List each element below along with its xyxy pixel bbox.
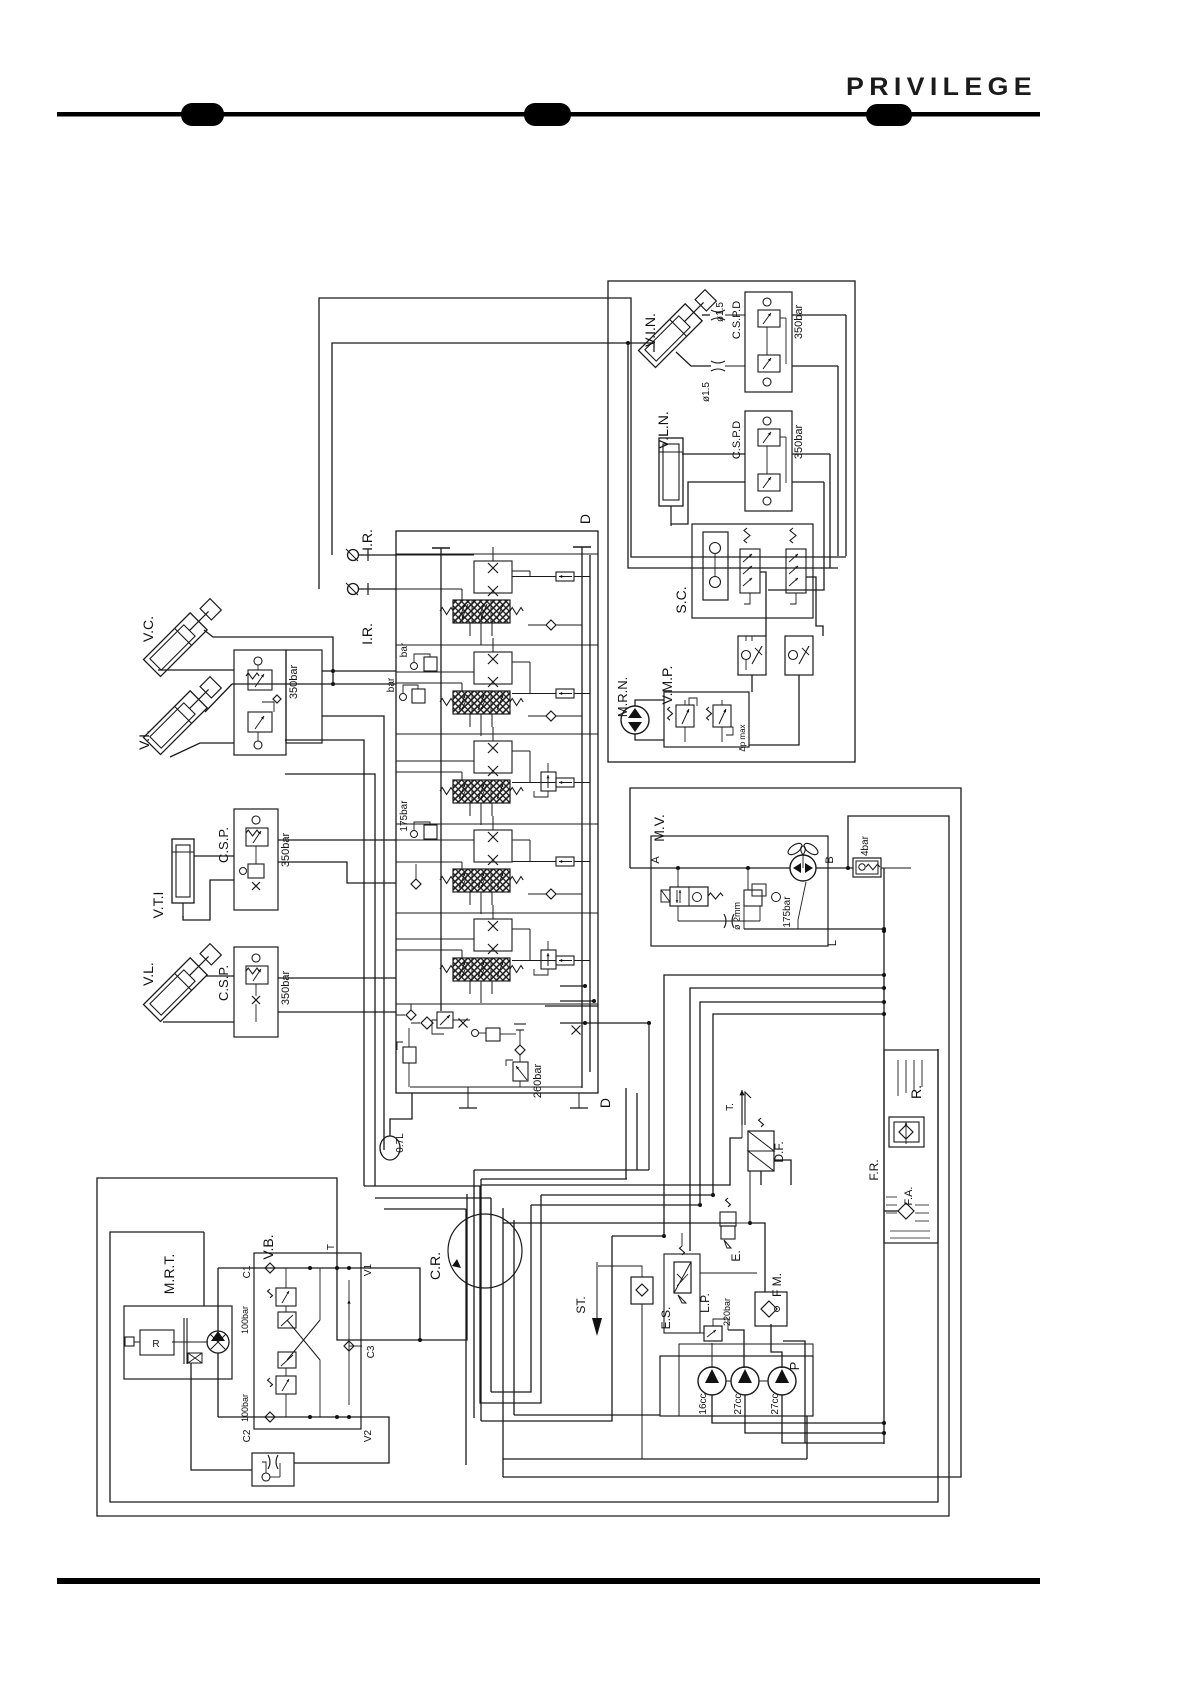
svg-text:ø1.5: ø1.5 — [715, 302, 726, 322]
valve section 5: 6/3 directional control valve — [453, 958, 510, 981]
svg-text:V.T.I: V.T.I — [150, 892, 166, 919]
tank stub right below manifold — [570, 1093, 588, 1108]
fan motor — [786, 841, 820, 881]
pump outlet wires to bus — [712, 1395, 886, 1443]
hand pump M.R.T. — [207, 1331, 229, 1353]
V.B. relief upper — [268, 1268, 297, 1328]
4bar check valve block — [853, 835, 881, 877]
valve section 3: load check valve to return rail — [512, 751, 590, 787]
svg-text:V.L.: V.L. — [140, 962, 156, 986]
valve section 3: right side relief valve — [534, 763, 556, 797]
V.M.P. relief valve right — [707, 700, 734, 742]
pump 16cc — [698, 1367, 726, 1415]
orifice 1.5mm upper — [711, 302, 745, 322]
wires S.C. to flow regulators — [760, 572, 823, 636]
wire V2 down to pilot check box — [294, 1417, 389, 1463]
M.V. solenoid bypass valve — [661, 868, 723, 906]
V.B. top port line C1-V1 — [218, 1263, 362, 1273]
wires V.L. to C.S.P. and onward — [163, 976, 396, 1022]
flow meter F.M. — [755, 1273, 787, 1326]
svg-text:V2: V2 — [363, 1429, 374, 1442]
plugged port X left — [459, 1019, 468, 1028]
supply rail with tank bar top-left — [432, 548, 450, 1011]
svg-text:V.M.P.: V.M.P. — [659, 666, 675, 705]
check valve box near ST — [598, 1266, 653, 1459]
svg-text:V1: V1 — [363, 1263, 374, 1276]
orifice 1.5mm lower — [701, 361, 745, 402]
S.C. pilot valve right — [786, 528, 806, 604]
valve section 1: load check valve to return rail — [512, 571, 590, 581]
motor drain to pilot check box — [191, 1363, 252, 1470]
svg-text:Δp max: Δp max — [738, 724, 747, 751]
sequence block S.C. — [673, 524, 813, 618]
svg-text:C3: C3 — [366, 1345, 377, 1358]
svg-text:V.I.N.: V.I.N. — [642, 313, 658, 347]
svg-text:bar: bar — [399, 642, 410, 657]
valve section 2: spring right — [510, 699, 523, 706]
svg-text:ø 2‌mm: ø 2‌mm — [732, 902, 742, 930]
V.B. check arrow line C3 — [344, 1280, 362, 1405]
valve section 4: spring left — [440, 877, 453, 884]
giant enclosure frame inner — [110, 1049, 938, 1502]
svg-text:M.V.: M.V. — [651, 814, 667, 842]
V.B. bottom port line C2-V2 — [218, 1412, 362, 1422]
valve section 2: pilot lines from rail — [396, 672, 474, 691]
wires V.I.N. to orifices — [676, 315, 711, 366]
reservoir fluid level lines upper — [898, 1060, 922, 1096]
pump shafts — [726, 1380, 768, 1382]
valve section 1: spring right — [510, 608, 523, 615]
wires D.F. — [761, 1160, 791, 1185]
main relief valve 260bar — [506, 1060, 544, 1098]
svg-text:R: R — [152, 1339, 159, 1350]
giant enclosure frame outer with jog through V.B. T port — [97, 816, 949, 1516]
pilot valve small — [472, 1028, 517, 1041]
svg-text:27cc: 27cc — [733, 1393, 744, 1414]
svg-text:ø1.5: ø1.5 — [701, 382, 712, 402]
V.B. crossing pilot lines — [287, 1268, 320, 1417]
svg-text:L: L — [827, 940, 839, 946]
wire from I.R.2 up-over to S.C. area — [319, 298, 846, 589]
pump pressure risers — [664, 1324, 782, 1368]
return rail with tank bar top-right — [573, 547, 591, 1088]
svg-text:A: A — [650, 856, 662, 864]
svg-text:350bar: 350bar — [280, 971, 292, 1006]
low pressure switch L.P. 220bar — [698, 1293, 732, 1341]
wires V.L.N. to C.S.P.D block — [671, 454, 745, 524]
motor shaft and coupling — [172, 1318, 208, 1364]
V.B. port labels — [240, 1244, 377, 1442]
valve section 5: bridge block with orifice X marks — [474, 905, 512, 954]
svg-text:C.S.P.: C.S.P. — [216, 965, 231, 1001]
cylinder V.I.N. — [639, 287, 720, 368]
svg-text:C.R.: C.R. — [427, 1252, 443, 1280]
cylinder V.I. — [136, 674, 224, 755]
svg-text:S.C.: S.C. — [673, 586, 689, 613]
svg-text:C1: C1 — [242, 1265, 253, 1278]
pump group P enclosure — [660, 1344, 813, 1416]
rotation loop C.R. — [427, 1214, 522, 1288]
A-B line through fan motor — [630, 866, 853, 870]
bleed valve I.R. 1 — [346, 529, 396, 561]
svg-text:175bar: 175bar — [399, 800, 410, 832]
svg-text:V.C.: V.C. — [140, 616, 156, 642]
valve section 2: bridge block with orifice X marks — [474, 638, 512, 687]
wires flow regulators down to V.M.P. — [749, 675, 799, 745]
flag arrow T. — [725, 1090, 751, 1138]
valve section 5: spring right — [510, 966, 523, 973]
reservoir enclosure R. — [884, 1050, 938, 1243]
valve section 5: work-port stubs — [470, 981, 492, 1003]
steering takeoff ST. arrow — [574, 1262, 602, 1336]
wires M.R.N. to V.M.P. — [635, 700, 664, 740]
valve section 1: work-port stubs — [470, 623, 492, 645]
svg-text:F.R.: F.R. — [867, 1159, 881, 1180]
svg-text:V.L.N.: V.L.N. — [655, 411, 671, 449]
wire V1 to junction — [362, 1268, 422, 1342]
accumulator 0.7L — [380, 1093, 412, 1160]
S.C. pilot valve left — [740, 528, 760, 604]
unloader valve — [432, 1012, 470, 1034]
svg-text:PRIVILEGE: PRIVILEGE — [846, 73, 1037, 101]
svg-text:R.: R. — [908, 1085, 924, 1099]
svg-text:I.R.: I.R. — [359, 529, 375, 551]
hand pump supply line vertical — [217, 1268, 219, 1417]
M.R.T. motor box — [124, 1254, 232, 1379]
svg-text:I.R.: I.R. — [359, 623, 375, 645]
check diamond mid — [515, 1040, 525, 1062]
svg-text:bar: bar — [386, 677, 397, 692]
svg-text:C2: C2 — [242, 1429, 253, 1442]
V.B. relief lower — [268, 1352, 297, 1417]
pressure switch E. — [720, 1198, 750, 1262]
wires C.S.P. V.T.I to manifold row4 — [278, 840, 396, 883]
svg-text:175bar: 175bar — [782, 896, 793, 928]
row separator lines — [396, 554, 598, 1004]
valve section 1: pilot lines from rail — [396, 555, 474, 600]
svg-text:D: D — [597, 1098, 613, 1108]
holding block C.S.P.D for V.L.N. — [731, 411, 805, 511]
outer enclosure box upper right — [608, 281, 855, 762]
bypass valve D.F. — [748, 1118, 786, 1171]
inlet check diamond 1 — [396, 1004, 416, 1020]
valve section 2: port relief valve upper (bar) — [399, 642, 437, 672]
valve section 4: port relief 175bar — [399, 800, 437, 839]
cylinder V.T.I vertical — [150, 839, 194, 918]
inlet filter diamond — [411, 1017, 433, 1029]
pump 27cc mid — [731, 1367, 759, 1415]
valve section 5: load check valve to return rail — [512, 929, 590, 965]
valve section 2: work-port stubs — [470, 714, 492, 736]
valve section 3: 6/3 directional control valve — [453, 780, 510, 803]
svg-text:M.R.T.: M.R.T. — [161, 1254, 177, 1294]
electric motor R — [125, 1330, 174, 1355]
svg-text:350bar: 350bar — [793, 305, 805, 340]
counterbalance valve upper in C.S.P.D — [246, 657, 281, 703]
valve section 2: spring left — [440, 699, 453, 706]
wires C.S.P.D V.I.N. to right bus — [792, 315, 846, 556]
valve section 3: bridge block with orifice X marks — [474, 727, 512, 776]
pilot check box with orifice — [252, 1453, 294, 1486]
svg-text:260bar: 260bar — [532, 1064, 544, 1099]
wire bundle horizontals to right side — [474, 1088, 765, 1292]
wire from I.R.1 up-over to S.C. area — [332, 343, 838, 568]
pump 3 feed loop — [783, 1341, 805, 1443]
manifold inlet section bottom line — [410, 1086, 582, 1088]
svg-text:4bar: 4bar — [860, 835, 871, 856]
valve section 3: spring left — [440, 788, 453, 795]
return filter F.R. — [867, 1117, 924, 1181]
flow regulator left — [738, 636, 766, 675]
valve section 2: 6/3 directional control valve — [453, 691, 510, 714]
cylinder V.L.N. vertical — [655, 411, 683, 526]
valve section 3: spring right — [510, 788, 523, 795]
valve section 5: spring left — [440, 966, 453, 973]
svg-text:L.P.: L.P. — [698, 1293, 712, 1313]
svg-text:0.7L: 0.7L — [395, 1133, 406, 1153]
left relief valve — [397, 1028, 416, 1087]
svg-text:F.A.: F.A. — [903, 1187, 915, 1206]
svg-text:B: B — [824, 856, 836, 863]
hydraulic motor M.R.N. — [615, 677, 649, 734]
svg-text:100bar: 100bar — [240, 1394, 250, 1422]
holding valve block C.S.P.D for V.C./V.I. — [234, 650, 322, 755]
cylinder V.L. — [140, 941, 224, 1022]
holding valve block C.S.P. for V.L. — [216, 947, 292, 1037]
svg-text:C.S.P.: C.S.P. — [216, 827, 231, 863]
valve section 4: anti-cavitation check — [411, 864, 421, 889]
svg-text:C.S.P.D: C.S.P.D — [731, 421, 743, 459]
valve section 5: pilot lines from rail — [396, 939, 474, 958]
footer rule — [57, 1578, 1040, 1584]
svg-text:F M.: F M. — [770, 1273, 784, 1297]
svg-text:E.: E. — [729, 1250, 743, 1261]
svg-text:M.R.N.: M.R.N. — [615, 677, 630, 717]
wires C.S.P.D V.L.N. to right bus — [768, 454, 830, 590]
manifold port stubs to return rails — [545, 984, 651, 1170]
svg-text:C.S.P.D: C.S.P.D — [731, 301, 743, 339]
valve section 2: load check valve to return rail — [512, 662, 590, 698]
holding block C.S.P.D for V.I.N. — [731, 292, 805, 392]
cylinder V.C. — [140, 596, 224, 677]
wire B port to right bus — [881, 868, 911, 1444]
wire E.S. to F.M. branch — [700, 1272, 757, 1274]
valve section 2: return check diamond — [528, 711, 582, 721]
pump 27cc right — [768, 1367, 796, 1415]
M.V. inner box — [651, 814, 828, 946]
valve section 3: work-port stubs — [470, 803, 492, 825]
staircase wires to suction bus — [664, 973, 886, 1251]
valve section 4: spring right — [510, 877, 523, 884]
valve section 4: pilot lines from rail — [396, 840, 474, 869]
long riser wires from holding blocks down the page — [285, 716, 384, 1186]
M.V. L-drain line — [744, 882, 886, 931]
valve section 4: bridge block with orifice X marks — [474, 816, 512, 865]
valve section 4: work-port stubs — [470, 892, 492, 914]
main distributor block D outline — [396, 531, 598, 1093]
svg-text:T.: T. — [725, 1103, 736, 1111]
tank stub left below manifold — [459, 1087, 477, 1108]
valve section 2: port relief valve lower (bar) — [386, 677, 425, 703]
wire bundle verticals through C.R. — [466, 1170, 514, 1477]
suction and drain lines bottom — [503, 1415, 807, 1459]
wires C.S.P.D to manifold row2 — [232, 671, 396, 684]
wires V.C./V.I. to holding block — [158, 630, 335, 757]
svg-text:16cc: 16cc — [698, 1393, 709, 1414]
header rule with binder marks — [57, 103, 1040, 126]
valve section 3: pilot lines from rail — [396, 761, 474, 780]
valve section 1: bridge block with orifice X marks — [474, 547, 512, 596]
V.B. dual pilot check block — [254, 1234, 361, 1429]
svg-text:T: T — [326, 1244, 337, 1250]
wires V.T.I to C.S.P. — [183, 856, 234, 920]
suction strainer F.A. — [886, 1187, 930, 1238]
svg-text:V.I.: V.I. — [136, 730, 152, 750]
V.M.P. relief valve left — [668, 698, 698, 742]
svg-text:E.S.: E.S. — [659, 1307, 673, 1330]
holding valve block C.S.P. for V.T.I — [216, 809, 292, 910]
enclosure stub at M.R.T. — [203, 1232, 205, 1306]
orifice 2mm under solenoid valve — [678, 902, 760, 930]
wire bundle left joins from risers — [364, 1186, 541, 1403]
M.V. outer enclosure — [503, 788, 961, 1477]
valve section 1: 6/3 directional control valve — [453, 600, 510, 623]
valve section 4: load check valve to return rail — [512, 840, 590, 866]
flow regulator right — [785, 636, 813, 675]
port labels A B L — [650, 856, 839, 946]
plugged port X right — [572, 1026, 581, 1035]
svg-text:27cc: 27cc — [770, 1393, 781, 1414]
motor speed valve block V.M.P. — [659, 666, 749, 747]
svg-text:350bar: 350bar — [288, 665, 300, 700]
M.V. pilot box — [744, 868, 766, 906]
wire bundle U-turns at bottom — [466, 1205, 612, 1465]
valve section 1: spring left — [440, 608, 453, 615]
valve section 4: return check diamond — [528, 889, 582, 899]
svg-text:100bar: 100bar — [240, 1306, 250, 1334]
svg-text:220bar: 220bar — [722, 1298, 732, 1326]
valve section 1: return check diamond — [528, 620, 582, 630]
M.V. relief valve 175bar — [760, 893, 793, 928]
valve section 5: right side relief valve — [534, 941, 556, 975]
svg-text:V.B.: V.B. — [260, 1234, 276, 1259]
svg-text:D: D — [577, 514, 593, 524]
S.C. shuttle plate with two ball checks — [703, 532, 728, 600]
counterbalance valve lower in C.S.P.D — [248, 702, 274, 749]
solenoid switch E.S. — [659, 1233, 700, 1333]
wire suction to F.A. — [884, 1210, 898, 1212]
vent symbol — [514, 1024, 526, 1040]
valve section 4: 6/3 directional control valve — [453, 869, 510, 892]
bleed valve I.R. 2 — [346, 583, 396, 645]
svg-text:ST.: ST. — [574, 1296, 588, 1313]
